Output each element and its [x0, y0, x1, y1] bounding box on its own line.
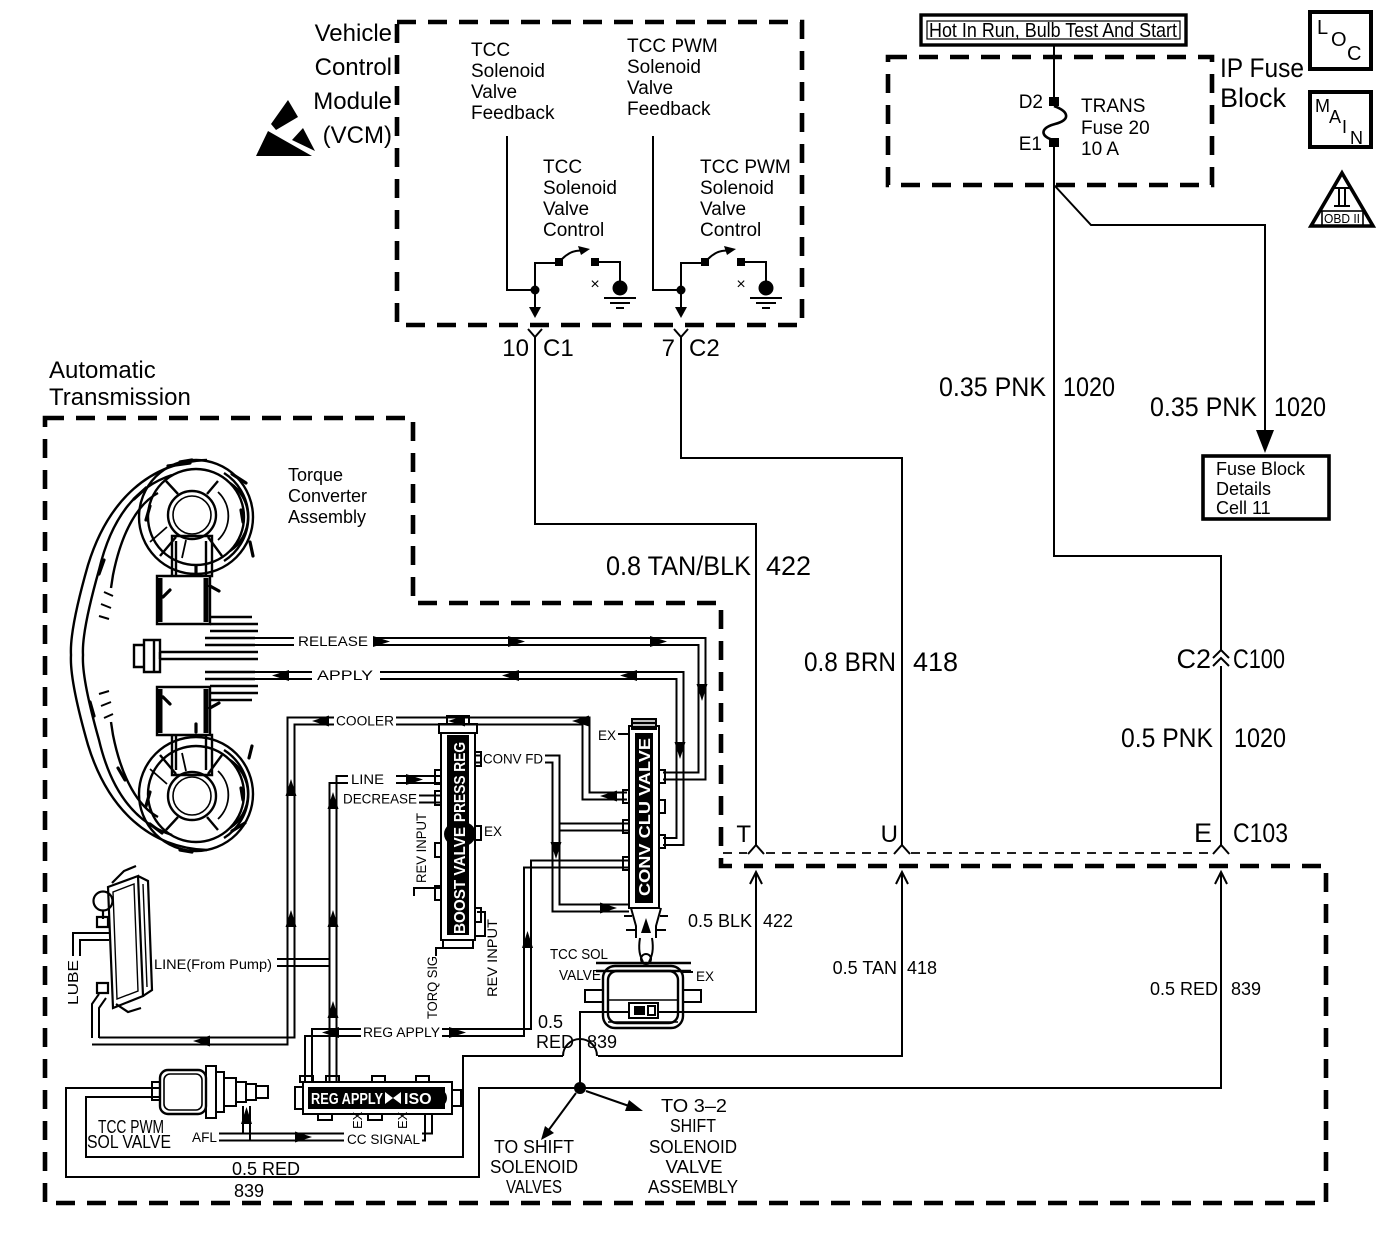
svg-text:C2: C2	[1176, 644, 1211, 674]
svg-text:Control: Control	[315, 54, 392, 81]
svg-text:C100: C100	[1233, 644, 1285, 674]
svg-text:Transmission: Transmission	[49, 384, 191, 411]
wire RED to TCC PWM solenoid	[66, 1088, 580, 1177]
TCC PWM driver ground	[750, 281, 782, 309]
svg-text:D2: D2	[1019, 92, 1043, 113]
svg-text:C: C	[1347, 43, 1361, 65]
svg-text:Valve: Valve	[543, 199, 589, 220]
svg-text:COOLER: COOLER	[336, 714, 394, 729]
svg-text:Feedback: Feedback	[471, 103, 555, 124]
label 0.5 TAN 418	[833, 958, 937, 978]
lube pipe and label	[65, 933, 109, 1005]
svg-text:C2: C2	[689, 335, 720, 362]
svg-text:0.5: 0.5	[538, 1012, 563, 1032]
svg-text:0.5 PNK: 0.5 PNK	[1121, 723, 1213, 753]
svg-text:1020: 1020	[1274, 392, 1326, 422]
arrow to shift solenoid valves	[541, 1093, 576, 1140]
svg-text:0.5 BLK: 0.5 BLK	[688, 911, 752, 931]
wire 0.5 RED 839 below E	[580, 872, 1227, 1088]
svg-text:SOL VALVE: SOL VALVE	[87, 1132, 171, 1152]
IP fuse block dashed box	[888, 57, 1212, 185]
svg-text:U: U	[881, 821, 898, 848]
svg-text:418: 418	[913, 647, 958, 677]
TCC PWM feedback wire	[653, 136, 677, 290]
svg-text:LUBE: LUBE	[65, 960, 82, 1005]
svg-text:E: E	[1194, 818, 1212, 848]
svg-text:Details: Details	[1216, 479, 1271, 499]
svg-text:ISO: ISO	[404, 1091, 432, 1108]
svg-text:IP Fuse: IP Fuse	[1220, 53, 1304, 83]
svg-text:TCC SOL: TCC SOL	[550, 946, 608, 963]
tcc solenoid connector	[629, 1003, 658, 1018]
svg-text:O: O	[1331, 29, 1347, 51]
svg-text:BOOST VALVE: BOOST VALVE	[452, 827, 469, 934]
hub trunk top	[157, 536, 212, 624]
wire BRN 418 from C2	[681, 341, 902, 845]
fuse block details box	[1203, 456, 1329, 519]
svg-text:10 A: 10 A	[1081, 139, 1119, 160]
svg-text:VALVES: VALVES	[506, 1177, 562, 1197]
automatic transmission dashed box	[45, 418, 1326, 1203]
wire TAN/BLK 422 from C1	[535, 341, 756, 845]
label 0.5 BLK 422	[688, 911, 793, 931]
vehicle control module VCM dashed box	[397, 22, 802, 325]
tcc pwm sol valve label	[87, 1117, 171, 1152]
wire 0.5 BLK 422 below T	[659, 872, 762, 1012]
VCM title text	[313, 20, 392, 149]
svg-text:Module: Module	[313, 88, 392, 115]
svg-text:422: 422	[766, 551, 811, 581]
svg-text:0.5 RED: 0.5 RED	[232, 1159, 300, 1179]
svg-text:Valve: Valve	[627, 78, 673, 99]
arrow to 3-2 shift solenoid valve assembly	[586, 1091, 643, 1111]
svg-text:TCC: TCC	[543, 157, 582, 178]
bottom torus ring	[139, 737, 253, 851]
release hydraulic line	[255, 634, 708, 780]
svg-text:EX: EX	[696, 969, 714, 984]
press reg boost valve spool	[444, 735, 476, 935]
svg-text:T: T	[736, 821, 751, 848]
wire branch to fuse block details	[1054, 185, 1274, 453]
label to 3-2 shift solenoid valve assembly	[648, 1096, 738, 1197]
connector pin 10 C1	[502, 329, 573, 362]
apply hydraulic line	[255, 668, 686, 845]
svg-text:EX: EX	[395, 1111, 410, 1129]
svg-text:TCC: TCC	[471, 40, 510, 61]
TCC PWM solenoid valve feedback label	[627, 36, 718, 120]
tcc solenoid funnel	[624, 908, 668, 964]
svg-text:Feedback: Feedback	[627, 99, 711, 120]
label to shift solenoid valves	[490, 1137, 578, 1197]
svg-text:TCC PWM: TCC PWM	[700, 157, 791, 178]
svg-text:Torque: Torque	[288, 465, 343, 485]
torque converter assembly artwork	[71, 460, 258, 851]
TRANS fuse 20 10A symbol	[1043, 96, 1149, 160]
svg-text:TCC PWM: TCC PWM	[627, 36, 718, 57]
conv clu valve spool	[635, 733, 654, 903]
svg-text:Solenoid: Solenoid	[471, 61, 545, 82]
splice junction	[574, 1082, 586, 1094]
svg-text:REV INPUT: REV INPUT	[414, 813, 429, 883]
svg-text:REG APPLY: REG APPLY	[311, 1091, 383, 1108]
rev input bracket right	[476, 912, 500, 997]
svg-text:OBD II: OBD II	[1324, 211, 1360, 226]
hub trunk bottom	[157, 687, 212, 775]
wire from hot feed into fuse block	[1053, 46, 1055, 98]
converter shading marks	[90, 460, 253, 852]
svg-text:839: 839	[234, 1181, 264, 1201]
connector pin 7 C2	[662, 329, 720, 362]
tcc solenoid valve body	[585, 963, 701, 1028]
line from pump	[154, 957, 330, 972]
hot in run bulb test and start box	[921, 15, 1186, 45]
svg-text:Solenoid: Solenoid	[543, 178, 617, 199]
svg-text:TRANS: TRANS	[1081, 96, 1145, 117]
svg-text:I: I	[1342, 117, 1347, 137]
label 0.5 RED 839 bottom	[232, 1159, 300, 1201]
label 0.5 RED 839 at solenoid	[536, 1012, 617, 1052]
fuse E1 terminal	[1019, 134, 1059, 155]
rev input bracket left	[414, 813, 441, 896]
press reg EX port label	[484, 824, 502, 839]
shell stepped notches	[99, 592, 113, 718]
svg-text:Cell 11: Cell 11	[1216, 498, 1271, 518]
conv clu valve spring cap	[598, 718, 657, 743]
converter shaft passages	[210, 617, 258, 631]
svg-text:Fuse Block: Fuse Block	[1216, 459, 1306, 479]
iso valve EX labels	[350, 1111, 410, 1129]
decrease port line	[343, 792, 442, 807]
TCC solenoid valve feedback label	[471, 40, 555, 124]
svg-text:L: L	[1317, 17, 1328, 39]
label 0.5 PNK 1020	[1121, 723, 1286, 753]
transmission oil cooler radiator	[94, 866, 153, 1012]
svg-text:DECREASE: DECREASE	[343, 792, 417, 807]
svg-text:Valve: Valve	[471, 82, 517, 103]
connector U	[881, 821, 910, 854]
TCC PWM solenoid valve control label	[700, 157, 791, 241]
connector T	[736, 821, 764, 854]
TCC driver ground	[604, 281, 636, 309]
svg-text:422: 422	[763, 911, 793, 931]
svg-text:Valve: Valve	[700, 199, 746, 220]
svg-text:AFL: AFL	[192, 1130, 217, 1145]
top torus ring	[139, 460, 253, 574]
wire PNK 1020 below C100	[1220, 666, 1222, 845]
label 0.35 PNK 1020 left	[939, 372, 1115, 402]
converter clutch valve bore outline	[623, 726, 665, 908]
svg-text:RELEASE: RELEASE	[298, 634, 368, 649]
svg-text:CONV CLU VALVE: CONV CLU VALVE	[637, 738, 654, 896]
OBD II triangle symbol	[1311, 173, 1373, 226]
svg-text:839: 839	[1231, 979, 1261, 999]
cooler return pipe from radiator	[92, 994, 106, 1038]
svg-text:Control: Control	[700, 220, 761, 241]
TCC control output arrow	[529, 290, 541, 318]
svg-text:LINE(From Pump): LINE(From Pump)	[154, 957, 272, 972]
svg-text:Control: Control	[543, 220, 604, 241]
svg-text:0.35 PNK: 0.35 PNK	[1150, 392, 1257, 422]
svg-text:TO 3–2: TO 3–2	[661, 1096, 727, 1116]
svg-text:REG APPLY: REG APPLY	[363, 1025, 440, 1040]
reg apply line	[305, 861, 629, 1083]
svg-text:ASSEMBLY: ASSEMBLY	[648, 1177, 738, 1197]
svg-text:0.5 RED: 0.5 RED	[1150, 979, 1218, 999]
label 0.35 PNK 1020 right	[1150, 392, 1326, 422]
svg-text:M: M	[1315, 96, 1330, 116]
svg-text:VALVE: VALVE	[666, 1157, 723, 1177]
pressure regulator boost valve bore outline	[435, 716, 481, 948]
reg apply iso valve bore	[295, 1076, 461, 1120]
svg-text:A: A	[1329, 107, 1341, 127]
tcc sol valve EX port	[683, 969, 714, 984]
MAIN legend box	[1310, 92, 1371, 148]
connector C2 C100	[1176, 644, 1285, 674]
cooler hydraulic line	[92, 714, 627, 1047]
conv fd line	[475, 752, 629, 914]
svg-text:×: ×	[736, 276, 745, 293]
svg-text:SOLENOID: SOLENOID	[490, 1157, 578, 1177]
svg-text:1020: 1020	[1234, 723, 1286, 753]
svg-text:Automatic: Automatic	[49, 357, 156, 384]
connector E C103	[1194, 818, 1288, 854]
ESD sensitivity symbol	[256, 100, 315, 156]
svg-text:E1: E1	[1019, 134, 1042, 155]
svg-text:(VCM): (VCM)	[323, 122, 392, 149]
TCC solenoid valve control label	[543, 157, 617, 241]
svg-text:Block: Block	[1220, 83, 1287, 113]
svg-text:Solenoid: Solenoid	[700, 178, 774, 199]
svg-text:LINE: LINE	[351, 772, 384, 787]
connector C103 thin dashed line	[723, 852, 1212, 854]
torq sig bracket	[425, 948, 444, 1019]
svg-text:RED: RED	[536, 1032, 574, 1052]
label 0.8 BRN 418	[804, 647, 958, 677]
wire 0.5 RED 839 from TCC solenoid	[580, 1012, 629, 1088]
svg-text:SOLENOID: SOLENOID	[649, 1137, 737, 1157]
svg-text:EX: EX	[484, 824, 502, 839]
fuse D2 terminal	[1019, 92, 1059, 113]
svg-text:7: 7	[662, 335, 675, 362]
converter outer shell	[71, 460, 207, 850]
line hydraulic feed	[328, 772, 443, 1082]
svg-text:0.8 BRN: 0.8 BRN	[804, 647, 896, 677]
label 0.5 RED 839 right	[1150, 979, 1261, 999]
svg-text:C103: C103	[1233, 818, 1288, 848]
svg-text:TORQ SIG: TORQ SIG	[425, 956, 440, 1019]
svg-text:0.35 PNK: 0.35 PNK	[939, 372, 1046, 402]
svg-text:Converter: Converter	[288, 486, 367, 506]
label 0.8 TAN/BLK 422	[606, 551, 811, 581]
svg-text:×: ×	[590, 276, 599, 293]
TCC driver transistor symbol	[531, 246, 621, 295]
svg-text:N: N	[1350, 128, 1363, 148]
TCC PWM driver transistor symbol	[677, 246, 767, 295]
TCC PWM control output arrow	[675, 290, 687, 318]
TCC feedback wire	[507, 136, 531, 290]
svg-text:EX: EX	[598, 728, 616, 743]
svg-text:0.5 TAN: 0.5 TAN	[833, 958, 897, 978]
svg-text:VALVE: VALVE	[559, 967, 601, 984]
svg-text:REV INPUT: REV INPUT	[485, 919, 500, 997]
LOC legend box	[1310, 12, 1371, 69]
reg apply iso valve spool	[308, 1087, 447, 1109]
hub left nut	[134, 640, 160, 672]
svg-text:C1: C1	[543, 335, 574, 362]
wire 0.5 TAN 418 below U	[86, 872, 908, 1157]
svg-text:Hot In Run, Bulb Test And Star: Hot In Run, Bulb Test And Start	[929, 20, 1177, 42]
svg-text:Assembly: Assembly	[288, 507, 366, 527]
svg-text:10: 10	[502, 335, 529, 362]
cc signal and afl line	[192, 1106, 432, 1147]
tcc pwm solenoid valve body	[152, 1066, 268, 1118]
svg-text:418: 418	[907, 958, 937, 978]
svg-text:CC SIGNAL: CC SIGNAL	[347, 1132, 420, 1147]
svg-text:Solenoid: Solenoid	[627, 57, 701, 78]
svg-text:EX: EX	[350, 1111, 365, 1129]
torque converter assembly label	[288, 465, 367, 527]
svg-text:839: 839	[587, 1032, 617, 1052]
tcc sol valve label	[550, 946, 608, 984]
IP fuse block label	[1220, 53, 1304, 113]
wire PNK 1020 from fuse down	[1054, 147, 1221, 650]
svg-text:SHIFT: SHIFT	[670, 1116, 716, 1136]
automatic transmission title	[49, 357, 191, 411]
svg-text:Vehicle: Vehicle	[315, 20, 392, 47]
svg-text:CONV FD: CONV FD	[483, 752, 543, 767]
svg-text:1020: 1020	[1063, 372, 1115, 402]
svg-text:Fuse 20: Fuse 20	[1081, 118, 1150, 139]
svg-text:0.8 TAN/BLK: 0.8 TAN/BLK	[606, 551, 751, 581]
svg-text:APPLY: APPLY	[317, 668, 373, 683]
svg-text:TO SHIFT: TO SHIFT	[494, 1137, 574, 1157]
svg-text:PRESS REG: PRESS REG	[452, 742, 469, 822]
